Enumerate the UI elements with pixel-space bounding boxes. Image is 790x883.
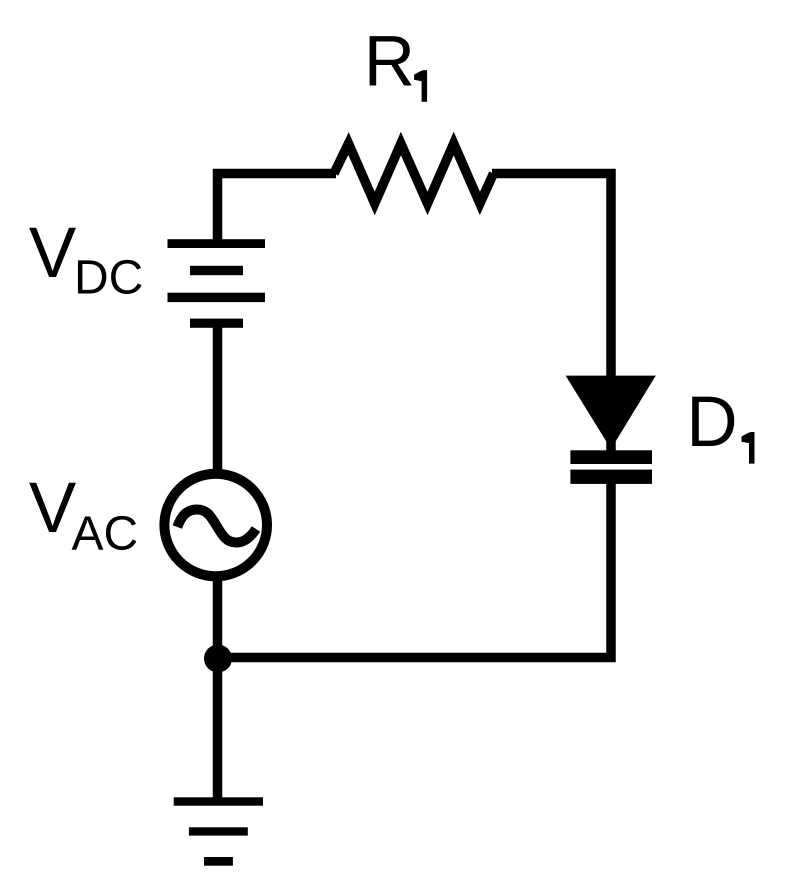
battery VDC: [168, 239, 266, 328]
svg-text:AC: AC: [72, 508, 139, 561]
AC source VAC circle: [164, 474, 267, 577]
diode D1 cathode bar 2: [570, 470, 652, 484]
wire node to ground: [213, 658, 223, 801]
label VAC: [29, 469, 138, 561]
diode D1 cathode bar 1: [570, 450, 652, 464]
wire bottom (node to diode cathode): [218, 480, 612, 658]
diode D1 triangle (anode): [566, 376, 656, 449]
svg-text:D: D: [686, 383, 737, 462]
node junction dot: [204, 645, 232, 673]
label D1: [686, 383, 754, 464]
wire battery to AC source: [213, 320, 223, 478]
svg-text:V: V: [29, 214, 77, 293]
resistor R1: [334, 144, 494, 204]
svg-text:R: R: [364, 22, 415, 101]
AC source sine wave: [177, 510, 256, 543]
svg-text:DC: DC: [74, 252, 143, 305]
label R1: [364, 22, 427, 101]
svg-text:V: V: [29, 469, 77, 548]
wire top-right corner (resistor to diode): [492, 174, 611, 456]
ground symbol: [174, 797, 263, 865]
label VDC: [29, 214, 143, 305]
wire AC source to node: [213, 573, 223, 660]
wire top-left corner (battery top to resistor): [218, 174, 337, 248]
